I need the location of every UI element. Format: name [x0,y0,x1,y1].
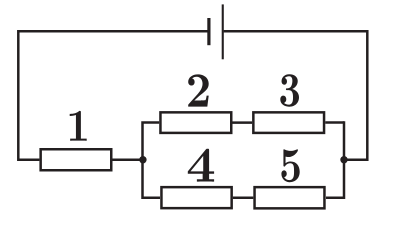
resistor R1 [41,149,112,170]
label 1 [70,111,87,141]
resistor R3 [253,112,324,133]
wire R1 to left node [113,158,143,161]
resistor R4 [161,187,231,208]
node right junction dot [340,156,347,163]
label 5 [281,149,299,182]
wire R3 to right bus [325,121,344,124]
wire R2 to R3 [233,121,253,124]
resistor R2 [160,112,231,133]
label 4 [188,149,214,182]
left bus wire [143,123,161,198]
wire top-right from battery to right corner down to node [224,31,368,160]
right bus wire [326,121,344,197]
label 3 [280,74,299,106]
battery short plate [207,18,210,45]
label 2 [188,74,209,106]
wire top-left from left corner to battery [18,31,207,160]
battery long plate [222,4,224,59]
wire R4 to R5 [233,196,253,199]
node left junction dot [139,156,146,163]
resistor R5 [255,187,325,208]
